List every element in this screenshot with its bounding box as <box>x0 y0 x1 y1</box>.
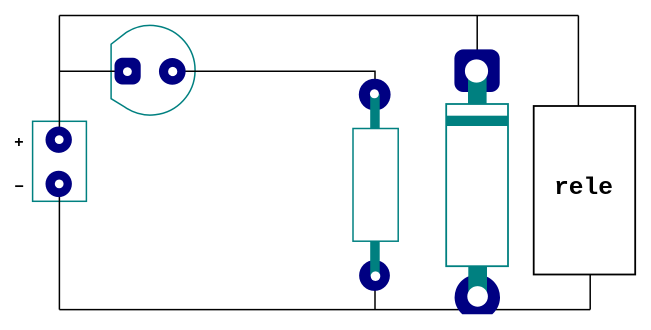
buzzer pin 1 square pad <box>115 58 141 85</box>
battery + hole <box>55 135 64 144</box>
diode D1 band <box>446 116 508 126</box>
buzzer pin 2 hole <box>168 67 177 76</box>
wire left rail lower <box>58 184 60 310</box>
wire left rail to buzzer pin 1 <box>59 70 127 72</box>
battery + pad <box>46 127 72 153</box>
battery - hole <box>55 180 64 189</box>
wire top rail to diode top pad <box>476 16 478 72</box>
piezo buzzer LS1 body <box>111 25 195 115</box>
svg-text:rele: rele <box>554 175 613 202</box>
buzzer pin 2 round pad <box>159 58 186 85</box>
diode top square pad <box>454 49 499 92</box>
wire bottom rail <box>59 309 590 311</box>
relay K1 body <box>534 106 636 275</box>
buzzer pin 1 hole <box>123 67 132 76</box>
diode bottom ring pad <box>455 275 500 315</box>
diode D1 body <box>446 104 508 266</box>
resistor bottom lead <box>370 241 380 277</box>
resistor top pad <box>359 79 391 111</box>
wire left rail upper <box>58 16 60 141</box>
diode bottom lead <box>468 266 487 297</box>
wire buzzer pin 2 to resistor top pad <box>173 71 376 94</box>
svg-text:−: − <box>14 179 24 197</box>
resistor bottom hole <box>371 271 381 281</box>
wire relay bottom to bottom rail <box>589 275 591 310</box>
battery connector BT1 body <box>33 121 87 201</box>
diode top hole <box>465 59 488 82</box>
battery - pad <box>46 171 72 197</box>
resistor bottom pad <box>359 260 390 291</box>
diode top lead <box>468 71 487 105</box>
resistor top lead <box>370 94 380 129</box>
wire top rail to relay top <box>577 16 579 107</box>
wire top rail <box>59 15 578 17</box>
svg-text:+: + <box>14 134 24 152</box>
resistor top hole <box>370 89 379 98</box>
diode bottom hole <box>467 286 488 307</box>
resistor R1 body <box>353 129 398 242</box>
wire resistor bottom pad to bottom rail <box>374 276 376 310</box>
